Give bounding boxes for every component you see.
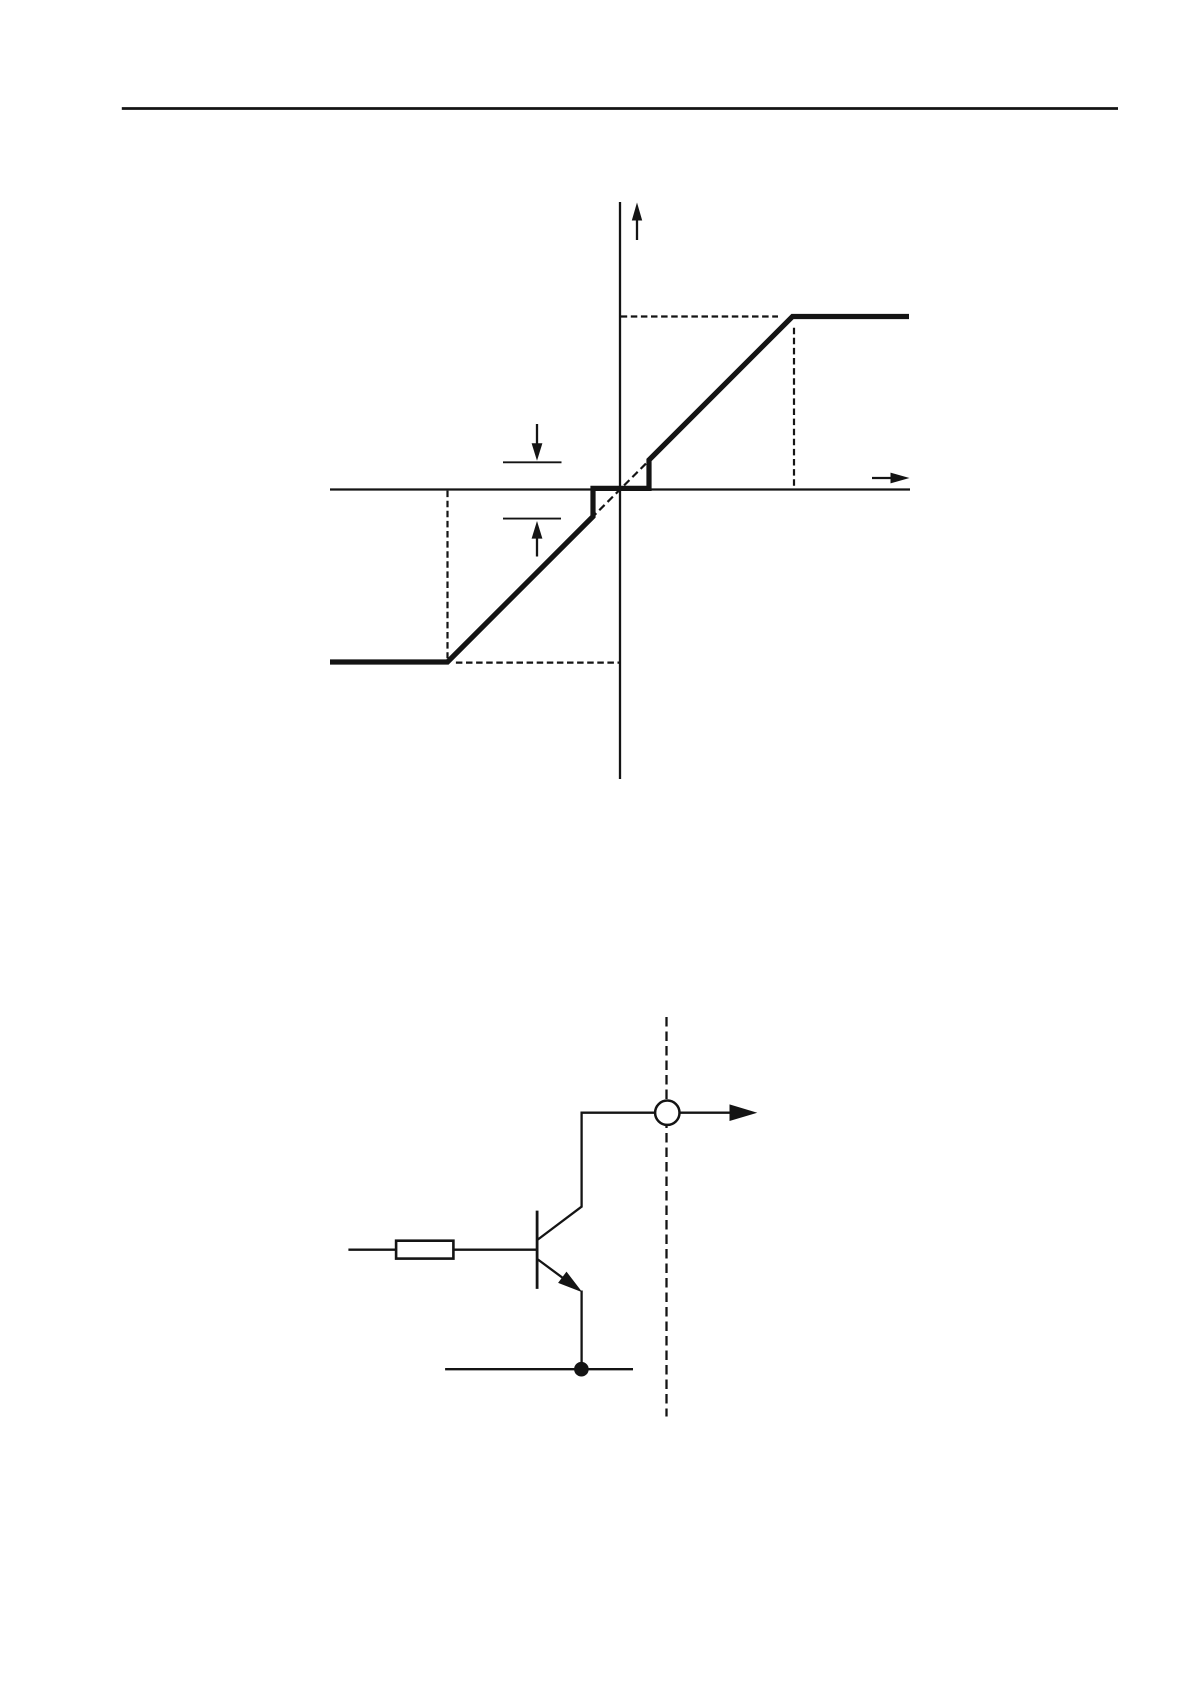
offset annotation arrow up bbox=[532, 521, 543, 557]
junction dot bbox=[574, 1362, 589, 1377]
transfer characteristic curve bbox=[330, 317, 909, 663]
y axis bbox=[619, 202, 621, 779]
device boundary dashed line bbox=[665, 1017, 667, 1417]
header rule bbox=[122, 107, 1118, 110]
emitter wire bbox=[580, 1291, 582, 1370]
transistor Q1 (NPN) bbox=[537, 1206, 582, 1292]
collector wire bbox=[580, 1112, 582, 1207]
x axis bbox=[330, 488, 910, 490]
dashed level line: positive clip level bbox=[621, 315, 778, 317]
offset annotation arrow down bbox=[532, 424, 543, 461]
offset annotation line (upper) bbox=[503, 461, 562, 463]
dashed drop line: positive clip input bbox=[793, 328, 795, 489]
output direction arrow bbox=[681, 1104, 758, 1121]
offset annotation line (lower) bbox=[503, 518, 561, 520]
dashed level line: negative clip level bbox=[456, 661, 619, 663]
dashed ideal transfer line through origin bbox=[591, 459, 651, 519]
dashed drop line: negative clip input bbox=[446, 491, 448, 659]
resistor R1 bbox=[396, 1241, 453, 1259]
output terminal circle bbox=[655, 1101, 679, 1125]
ground rail wire bbox=[445, 1368, 633, 1370]
base wire bbox=[348, 1249, 537, 1251]
x-axis direction arrow bbox=[872, 473, 910, 484]
y-axis direction arrow bbox=[632, 203, 642, 241]
output wire to terminal bbox=[581, 1112, 655, 1114]
